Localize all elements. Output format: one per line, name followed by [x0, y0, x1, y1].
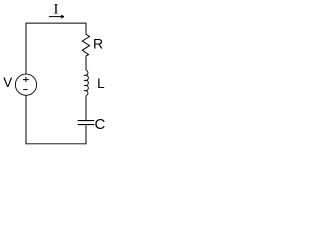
current arrow: [49, 16, 64, 18]
wire below C: [85, 125, 87, 144]
svg-text:R: R: [93, 36, 103, 52]
voltage source V1 circle: [15, 74, 36, 95]
wire between L and C: [85, 96, 87, 120]
svg-text:V: V: [3, 75, 12, 90]
wire left lower: [25, 95, 27, 144]
svg-text:C: C: [95, 116, 106, 133]
minus sign: [23, 89, 27, 91]
resistor R zigzag: [82, 34, 89, 56]
wire right upper lead: [85, 23, 87, 35]
svg-text:L: L: [97, 76, 105, 91]
inductor L loops: [85, 70, 89, 96]
capacitor C bottom plate: [78, 124, 95, 126]
wire top: [26, 22, 86, 24]
wire left upper: [25, 23, 27, 74]
svg-text:I: I: [54, 1, 59, 17]
wire between R and L: [85, 56, 87, 70]
capacitor C top plate: [78, 120, 95, 122]
plus sign: [23, 77, 29, 82]
wire bottom: [26, 143, 86, 145]
